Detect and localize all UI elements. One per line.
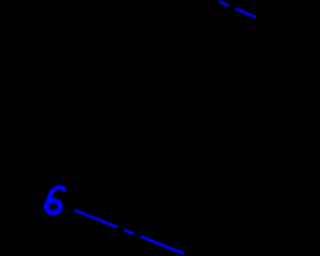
- centerline top (dash-dot axis): [219, 1, 262, 20]
- reference numeral 6: [46, 187, 64, 212]
- centerline bottom (dash-dot axis): [75, 210, 185, 254]
